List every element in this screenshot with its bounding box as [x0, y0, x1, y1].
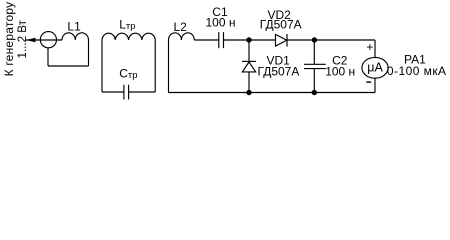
wire: meter bottom to rail [374, 78, 376, 92]
wire: Ltr right leg [154, 40, 156, 92]
wire: generator bottom leg [47, 48, 49, 66]
inductor L1 [62, 33, 89, 40]
label minus [366, 81, 371, 83]
node D dot: bottom C2 junction [312, 90, 317, 95]
svg-text:+: + [366, 40, 373, 54]
svg-text:Lтр: Lтр [119, 18, 135, 32]
wire: tank bottom left [102, 91, 124, 93]
wire: Ltr left leg [101, 40, 103, 92]
diode VD1 upper wire [248, 40, 250, 61]
svg-text:μА: μА [367, 61, 383, 75]
generator circle [40, 32, 56, 48]
capacitor C2 plates [304, 64, 326, 68]
wire: L1 right leg down [88, 40, 90, 66]
wire: tank bottom right [129, 91, 156, 93]
wire: arrow line to generator [26, 39, 62, 41]
wire: generator loop bottom [48, 65, 89, 67]
svg-text:L2: L2 [174, 20, 188, 34]
svg-text:100 н: 100 н [325, 65, 355, 79]
diode VD1 lower wire [248, 72, 250, 93]
svg-text:ГД507А: ГД507А [258, 65, 300, 79]
svg-text:0-100 мкА: 0-100 мкА [387, 64, 447, 78]
capacitor C1 plates [219, 32, 224, 48]
diode VD1 triangle [242, 62, 255, 72]
inductor Ltr [102, 33, 155, 40]
wire: arrowhead [26, 38, 36, 43]
node A dot: top VD1 junction [246, 37, 251, 42]
capacitor C2 lower wire [313, 69, 315, 93]
svg-text:L1: L1 [67, 20, 81, 34]
svg-text:100 н: 100 н [206, 16, 236, 30]
inductor L2 [169, 33, 195, 40]
diode VD1 cathode bar [242, 60, 256, 62]
svg-text:ГД507А: ГД507А [260, 18, 302, 32]
capacitor C2 upper wire [313, 40, 315, 64]
svg-text:Cтр: Cтр [119, 66, 137, 80]
wire: bottom rail [169, 92, 376, 94]
diode VD2 cathode bar [286, 34, 288, 47]
meter PA1 ellipse [362, 57, 388, 78]
svg-text:1...2 Вт: 1...2 Вт [15, 20, 29, 59]
wire: top rail VD2 to corner [287, 39, 375, 41]
wire: top rail C1 to VD2 [224, 39, 276, 41]
wire: down to meter top [374, 40, 376, 58]
node B dot: top C2 junction [312, 37, 317, 42]
capacitor Ctr plates [124, 85, 129, 100]
wire: L2 left leg [168, 40, 170, 93]
wire: top rail L2 to C1 [194, 39, 219, 41]
diode VD2 triangle [276, 34, 287, 46]
node C dot: bottom VD1 junction [246, 90, 251, 95]
